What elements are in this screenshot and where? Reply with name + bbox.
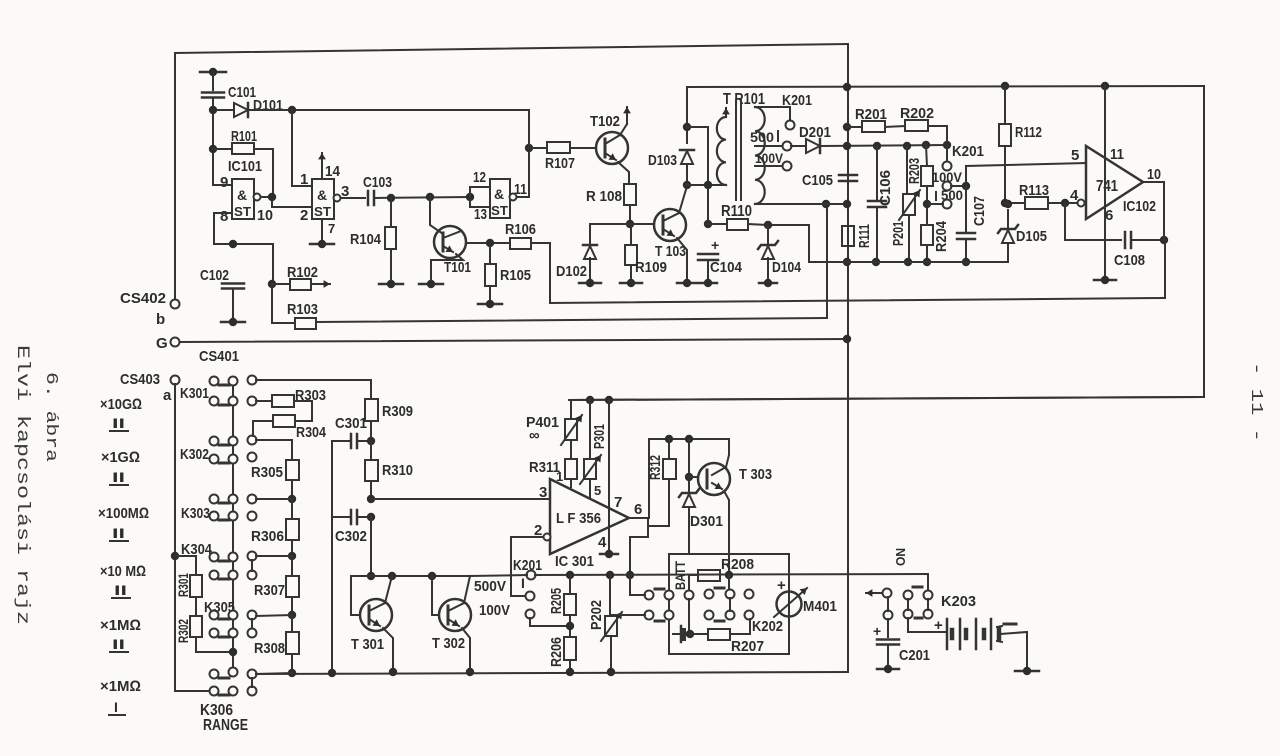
junction D103 bottom xyxy=(683,181,691,189)
junction T301 emitter/bus xyxy=(389,668,397,676)
wire K203 a link xyxy=(907,599,909,610)
switch K303 contacts row2 xyxy=(210,512,219,521)
svg-text:12: 12 xyxy=(473,169,486,186)
contact K203 b2 xyxy=(924,610,933,619)
resistor R111 xyxy=(842,226,854,246)
junction P201 top xyxy=(903,142,911,150)
wire gate2 out to C103 xyxy=(341,197,365,199)
svg-text:K201: K201 xyxy=(952,143,984,160)
junction D103 top xyxy=(683,123,691,131)
svg-text:7: 7 xyxy=(614,494,622,511)
ground (C201) xyxy=(877,665,899,673)
wire R101 left xyxy=(213,148,232,150)
svg-text:11: 11 xyxy=(1110,146,1124,163)
wire: bottom bus of lower section xyxy=(254,672,848,674)
junction C302 right xyxy=(367,513,375,521)
svg-text:P301: P301 xyxy=(591,424,608,449)
junction P202/bus xyxy=(607,668,615,676)
ground (C104) xyxy=(699,279,717,287)
svg-text:10: 10 xyxy=(1147,166,1161,183)
svg-text:C106: C106 xyxy=(877,170,894,206)
transformer TR101 secondary winding xyxy=(755,107,765,204)
junction R204 bottom xyxy=(923,258,931,266)
contact K202 c3 xyxy=(705,611,714,620)
junction R307/R308 xyxy=(288,611,296,619)
wire P202 bottom xyxy=(610,636,612,672)
svg-text:R101: R101 xyxy=(231,128,257,145)
junction C107 bottom xyxy=(962,258,970,266)
wire T301 collector riser xyxy=(385,576,392,603)
svg-text:6: 6 xyxy=(634,501,642,518)
wire pin6 output xyxy=(629,518,648,575)
junction R102 left xyxy=(268,280,276,288)
label dash K203 top xyxy=(913,586,922,589)
contact K201 100V xyxy=(943,182,952,191)
svg-text:II: II xyxy=(112,469,125,485)
contact K201 mains top xyxy=(786,121,795,130)
svg-text:4: 4 xyxy=(598,534,607,551)
resistor R309 xyxy=(365,399,378,421)
svg-text:R109: R109 xyxy=(635,259,667,276)
wire R202 to K201 xyxy=(928,126,947,145)
arrow terminal (meter return) xyxy=(866,589,887,597)
transistor T302 xyxy=(439,599,471,631)
wire P401 to R311 xyxy=(570,440,572,459)
wire P202 to K202 b1 xyxy=(610,614,645,616)
wire P301 top stub xyxy=(589,400,591,459)
svg-text:Elvi kapcsolási rajz: Elvi kapcsolási rajz xyxy=(12,345,32,625)
gate2 output bubble pin3 xyxy=(334,195,341,202)
wire C104 bottom xyxy=(707,260,709,281)
junction R208 right xyxy=(725,571,733,579)
switch K303 contacts row1 xyxy=(210,495,219,504)
wire R103 bus riser xyxy=(826,204,828,318)
contact tap 500 xyxy=(783,142,792,151)
svg-text:&: & xyxy=(317,187,327,203)
junction primary/C104 line xyxy=(704,181,712,189)
wire T302 collector riser xyxy=(464,576,470,603)
wire gate1 pin8 xyxy=(214,213,273,244)
wire R113 left xyxy=(1005,202,1025,204)
svg-text:P201: P201 xyxy=(890,221,907,246)
junction D105 top xyxy=(1004,200,1012,208)
svg-text:K203: K203 xyxy=(941,593,976,610)
junction T103 base node xyxy=(626,220,634,228)
junction R308/bottom bus xyxy=(288,669,296,677)
wire R208 left stub xyxy=(689,575,698,591)
svg-text:a: a xyxy=(163,387,172,404)
svg-text:C101: C101 xyxy=(228,84,256,101)
wire secondary top tap xyxy=(755,107,790,121)
svg-text:14: 14 xyxy=(325,163,341,180)
svg-text:D104: D104 xyxy=(772,259,802,276)
wire secondary 500 tap xyxy=(755,145,783,147)
wire D104 riser link xyxy=(768,225,809,262)
wire R107 left xyxy=(529,147,547,149)
svg-text:741: 741 xyxy=(1096,178,1118,195)
resistor R304 xyxy=(273,415,295,427)
switch K305 pole row2 xyxy=(248,629,257,638)
junction R112 top xyxy=(1001,82,1009,90)
svg-text:100V: 100V xyxy=(479,602,510,619)
diode D201 xyxy=(806,139,820,153)
svg-text:×1MΩ: ×1MΩ xyxy=(100,617,141,634)
contact K202 a2 xyxy=(665,591,674,600)
svg-text:ST: ST xyxy=(314,204,331,219)
resistor R110 xyxy=(727,219,748,230)
switch K301 pole row1 xyxy=(248,376,257,385)
wire bias line left drop xyxy=(648,439,650,518)
wire R205 to R206 xyxy=(569,615,571,637)
wire K301 row2 to R303 xyxy=(256,400,272,402)
junction C106 top xyxy=(873,142,881,150)
resistor R105 xyxy=(485,264,496,286)
wire R111 top xyxy=(847,204,849,226)
svg-text:R202: R202 xyxy=(900,105,934,122)
wire R311 to pin1 xyxy=(570,479,572,487)
battery cell BATT symbol xyxy=(680,626,683,642)
T303 emitter stroke xyxy=(712,482,722,489)
transformer TR101 primary winding xyxy=(717,117,726,185)
junction R205/R206 xyxy=(566,622,574,630)
potentiometer P301 xyxy=(580,455,601,484)
potentiometer P401 xyxy=(561,415,582,445)
junction R302/right bus xyxy=(229,648,237,656)
junction T302 base node xyxy=(428,572,436,580)
junction gate1 out xyxy=(268,193,276,201)
ground (IC301 pin4) xyxy=(600,550,618,558)
wire T103 base line xyxy=(590,223,654,225)
label II (2) xyxy=(110,469,128,485)
wire R112 bottom stub xyxy=(1004,146,1006,203)
junction supply/main bus xyxy=(843,142,851,150)
wire D201 anode xyxy=(791,145,806,147)
wire R106 to feedback bus xyxy=(531,243,550,303)
T301 collector stroke xyxy=(369,603,385,611)
junction on C107 line xyxy=(962,182,970,190)
T101 emitter stroke xyxy=(443,245,453,252)
wire C107 stub upper xyxy=(965,186,967,233)
label II (4) xyxy=(112,582,130,598)
svg-text:T 301: T 301 xyxy=(351,636,384,653)
wire P401 top xyxy=(569,400,571,419)
svg-text:R312: R312 xyxy=(647,455,664,480)
wire K306 row1 link xyxy=(256,673,292,674)
potentiometer P202 xyxy=(601,612,622,641)
T102 emitter stroke xyxy=(605,153,616,160)
wire R208 right drop xyxy=(728,575,730,590)
svg-text:T R101: T R101 xyxy=(723,91,765,108)
junction R305/R306 xyxy=(288,495,296,503)
junction gate3 input node xyxy=(466,193,474,201)
svg-text:10: 10 xyxy=(257,207,273,224)
wire T301 collector line xyxy=(351,575,470,577)
junction R113 left xyxy=(1001,199,1009,207)
label I (6) xyxy=(109,699,125,715)
wire K201 500 link xyxy=(927,203,943,205)
wire: G bus CS401 xyxy=(180,339,847,342)
pin 14 arrow xyxy=(318,153,326,179)
wire 200-series ground bus xyxy=(809,261,1008,263)
svg-text:6: 6 xyxy=(1105,207,1113,224)
junction R111 bottom xyxy=(843,258,851,266)
wire D102 bottom xyxy=(589,258,591,281)
junction C106 bottom xyxy=(872,258,880,266)
svg-text:7: 7 xyxy=(328,221,335,236)
meter M401 xyxy=(774,588,807,617)
wire primary return xyxy=(687,127,708,224)
switch K303 pole row1 xyxy=(248,495,257,504)
contact K202 b2 xyxy=(665,611,674,620)
wire C101 to gate1 pin9 xyxy=(212,98,214,184)
wire R301 top xyxy=(175,556,196,575)
wire R304 to K302 pole xyxy=(253,421,273,436)
junction R101 left xyxy=(209,145,217,153)
svg-text:D301: D301 xyxy=(690,513,723,530)
wire primary bottom link xyxy=(687,184,726,186)
switch K304 pole row2 xyxy=(248,571,257,580)
svg-text:ON: ON xyxy=(893,548,908,566)
wire R105 bottom xyxy=(489,286,491,302)
wire P201 top stub xyxy=(906,146,908,194)
svg-text:R203: R203 xyxy=(906,158,923,184)
wire output to feedback bus xyxy=(1164,240,1166,298)
contact C201 top xyxy=(884,611,893,620)
svg-text:R102: R102 xyxy=(287,264,318,281)
svg-text:R307: R307 xyxy=(254,582,285,599)
wire K201 100V link xyxy=(951,185,966,187)
contact K201 500 xyxy=(943,200,952,209)
wire: power box bottom edge xyxy=(569,397,1204,400)
wire K306 pole link xyxy=(251,678,253,687)
switch K306 pole row2 xyxy=(248,687,257,696)
svg-text:R112: R112 xyxy=(1015,124,1042,141)
wire M401 bottom xyxy=(788,616,790,654)
svg-text:+: + xyxy=(777,577,786,594)
wire D105 top link xyxy=(1005,203,1008,204)
T103 collector stroke xyxy=(663,213,679,221)
wire D105 riser xyxy=(1007,210,1009,262)
svg-text:CS402: CS402 xyxy=(120,290,166,307)
T303 collector stroke xyxy=(712,467,726,475)
T101 collector stroke xyxy=(443,231,461,238)
label battery minus xyxy=(1004,623,1016,626)
ground (T101) xyxy=(419,280,443,288)
svg-text:II: II xyxy=(112,636,125,652)
junction R110 left xyxy=(704,220,712,228)
wire R107 to T102 base xyxy=(570,147,596,149)
resistor R102 xyxy=(290,279,311,290)
svg-text:IC101: IC101 xyxy=(228,158,262,175)
label dash d xyxy=(715,620,724,623)
svg-text:13: 13 xyxy=(474,206,487,223)
resistor R106 xyxy=(510,238,531,249)
resistor R104 xyxy=(385,227,396,249)
svg-text:I: I xyxy=(114,699,118,715)
capacitor C301 xyxy=(351,434,357,448)
svg-text:×1MΩ: ×1MΩ xyxy=(100,678,141,695)
ground (R105) xyxy=(478,300,502,308)
wire gate3 pin13 xyxy=(470,197,490,207)
wire R312 top stub xyxy=(668,439,670,459)
svg-text:R309: R309 xyxy=(382,403,413,420)
op-amp pin4 bubble xyxy=(1078,200,1085,207)
label dash b xyxy=(655,620,664,623)
wire R104 stub xyxy=(390,198,392,227)
resistor R311 xyxy=(565,459,577,479)
svg-text:R208: R208 xyxy=(721,556,754,573)
switch K306 contacts row1 xyxy=(210,670,219,679)
svg-text:R306: R306 xyxy=(251,528,284,545)
contact K203 a2 xyxy=(924,591,933,600)
resistor R207 xyxy=(708,629,730,640)
svg-text:D101: D101 xyxy=(253,97,283,114)
resistor R307 xyxy=(286,576,299,597)
wire meter line xyxy=(535,574,928,575)
svg-text:D102: D102 xyxy=(556,263,587,280)
gate IC101b body xyxy=(312,179,334,219)
switch K302 contacts row1 xyxy=(210,437,219,446)
transistor T301 xyxy=(360,599,392,631)
T302 collector stroke xyxy=(448,603,464,611)
wire K302 row1 to R305 xyxy=(256,440,292,460)
resistor R303 xyxy=(272,395,294,407)
diode D101 xyxy=(234,103,248,117)
wire: power box top edge xyxy=(687,86,1204,87)
gate IC101a body xyxy=(232,179,254,219)
wire T103 emitter xyxy=(677,238,687,281)
switch K303 pole row2 xyxy=(248,512,257,521)
wire feedback bus to op-amp 741 output xyxy=(550,298,1165,303)
wire T303 base xyxy=(689,476,697,478)
junction R104 top xyxy=(387,194,395,202)
junction P301 top xyxy=(586,396,594,404)
wire arrow-C201 link xyxy=(887,597,889,611)
contact K202 a1 xyxy=(645,591,654,600)
svg-text:CS403: CS403 xyxy=(120,371,160,388)
ground (T103) xyxy=(677,279,697,287)
junction D101 anode xyxy=(209,106,217,114)
wire gate3 out riser xyxy=(517,148,529,197)
junction R105 top xyxy=(486,239,494,247)
svg-text:D105: D105 xyxy=(1016,228,1047,245)
svg-text:C104: C104 xyxy=(710,259,743,276)
wire K202 a3 to battery cell xyxy=(688,599,690,630)
svg-text:C301: C301 xyxy=(335,415,367,432)
transformer TR101 primary arrow xyxy=(722,108,730,117)
wire D101 output xyxy=(248,109,529,111)
svg-text:R308: R308 xyxy=(254,640,285,657)
terminal G xyxy=(171,338,180,347)
wire R203 to R204 xyxy=(926,186,928,225)
wire D103 bottom xyxy=(686,164,688,185)
svg-text:8: 8 xyxy=(220,208,228,225)
svg-text:T 103: T 103 xyxy=(655,243,686,260)
junction R202 drop xyxy=(943,141,951,149)
svg-text:∞: ∞ xyxy=(529,427,540,444)
resistor R103 xyxy=(295,318,316,329)
svg-text:IC 301: IC 301 xyxy=(555,553,594,570)
wire D301/base riser xyxy=(688,439,690,493)
svg-text:T101: T101 xyxy=(444,259,471,276)
junction output/meter line xyxy=(626,571,634,579)
svg-text:&: & xyxy=(494,186,504,202)
wire pin2 loop to K201b xyxy=(511,537,543,596)
wire T302 emitter xyxy=(462,628,470,672)
wire box B left / D103 line xyxy=(686,87,688,143)
svg-text:R106: R106 xyxy=(505,221,536,238)
svg-text:K302: K302 xyxy=(180,446,209,463)
gate3 output bubble pin11 xyxy=(510,194,517,201)
contact K201b t1 xyxy=(526,592,535,601)
wire D101 anode xyxy=(217,109,234,111)
op-amp IC301 body xyxy=(550,479,629,554)
svg-text:R310: R310 xyxy=(382,462,413,479)
svg-text:R113: R113 xyxy=(1019,182,1049,199)
ground (battery) xyxy=(1015,667,1039,675)
svg-text:K301: K301 xyxy=(180,385,209,402)
svg-text:5: 5 xyxy=(1071,147,1079,164)
contact K202 c2 xyxy=(726,590,735,599)
svg-text:T 302: T 302 xyxy=(432,635,465,652)
junction R309/R310 xyxy=(367,437,375,445)
wire R112 top stub xyxy=(1004,86,1006,124)
svg-text:II: II xyxy=(114,582,127,598)
wire T101 collector to R106 xyxy=(466,242,510,244)
wire K201b t2 link xyxy=(530,618,571,626)
svg-text:K202: K202 xyxy=(752,618,783,635)
svg-text:II: II xyxy=(112,415,125,431)
junction T303 base xyxy=(685,473,693,481)
svg-text:9: 9 xyxy=(220,174,228,191)
resistor R308 xyxy=(286,632,299,654)
svg-text:C102: C102 xyxy=(200,267,229,284)
wire R109 bottom xyxy=(630,265,632,281)
wire T302 base loop xyxy=(432,576,439,615)
wire T103 collector xyxy=(679,186,687,213)
junction C105 bottom xyxy=(843,200,851,208)
svg-text:D201: D201 xyxy=(799,124,831,141)
wire R207 to K202 d2 xyxy=(730,619,750,634)
transistor T103 xyxy=(654,209,686,241)
wire T301 base loop xyxy=(351,576,358,615)
wire: oscillator box top edge xyxy=(175,44,848,53)
switch K304 pole row1 xyxy=(248,552,257,561)
ground (741 pin6) xyxy=(1094,276,1116,284)
zener diode D105 xyxy=(998,225,1018,243)
contact tap 100V xyxy=(783,162,792,171)
switch K305 contacts row1 xyxy=(210,611,219,620)
svg-text:K201: K201 xyxy=(782,92,812,109)
contact K203 a1 xyxy=(904,591,913,600)
capacitor C102 xyxy=(222,284,244,289)
wire collector line to K201b xyxy=(470,575,527,576)
wire C301 right xyxy=(357,440,371,442)
wire C201 top stub xyxy=(887,619,889,637)
wire C108 to output xyxy=(1132,239,1164,241)
svg-text:- 11 -: - 11 - xyxy=(1246,362,1265,442)
wire C101 top stub xyxy=(212,72,214,90)
wire LF356 supply bus xyxy=(569,397,1204,400)
transformer TR101 core xyxy=(735,100,737,200)
svg-text:C105: C105 xyxy=(802,172,833,189)
svg-text:M401: M401 xyxy=(803,598,837,615)
junction P201 bottom xyxy=(904,258,912,266)
wire D105 stub xyxy=(1007,243,1009,262)
T301 emitter stroke xyxy=(369,619,380,626)
label dash c xyxy=(715,587,724,590)
junction transformer return xyxy=(822,200,830,208)
